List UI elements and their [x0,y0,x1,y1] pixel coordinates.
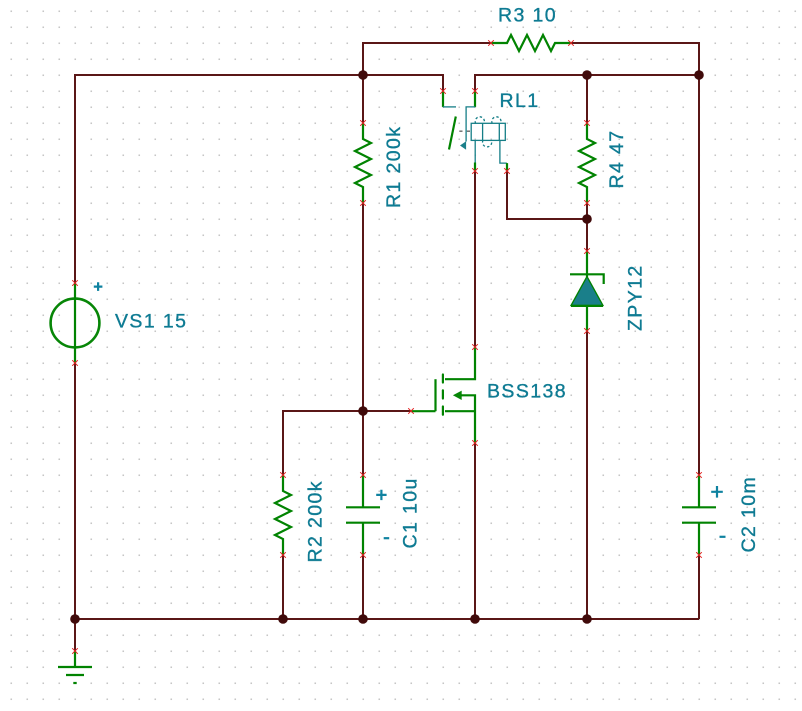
wire node G to R2 [283,411,363,475]
svg-text:R4 47: R4 47 [606,129,628,188]
wire node G to C1 [362,411,364,475]
resistor R4 [579,120,595,206]
resistor R1 [355,120,371,206]
capacitor C2 [682,472,726,558]
junction ground x source [470,614,480,624]
junction ground x zener [582,614,592,624]
junction node G [358,406,368,416]
wire rail A to relay pin1 [363,75,443,91]
junction rail B x right rail [694,70,704,80]
capacitor C1 [346,472,389,558]
wire right rail down to C2 [698,75,700,475]
svg-text:R2 200k: R2 200k [305,480,327,562]
wire VS1 bottom [74,363,76,619]
wire node G to gate [363,410,411,412]
svg-text:ZPY12: ZPY12 [625,264,647,331]
svg-text:BSS138: BSS138 [487,381,567,403]
wire C2 bottom [698,555,700,619]
junction ground x R2 [278,614,288,624]
zener diode ZPY12 [570,248,604,334]
wire zener to ground rail [586,331,588,619]
wire R3 left to rail A [363,43,491,75]
junction ground x C1 [358,614,368,624]
svg-text:C2 10m: C2 10m [738,476,760,553]
resistor R2 [275,472,291,558]
relay RL1 [440,88,510,174]
svg-text:C1 10u: C1 10u [400,477,422,548]
wire to ground symbol [74,619,76,651]
junction node K [582,214,592,224]
wire R4 bottom to node K [586,203,588,219]
wire R1 bottom to node G [362,203,364,411]
svg-text:VS1 15: VS1 15 [115,311,187,333]
junction rail B x R4 [582,70,592,80]
svg-text:R1 200k: R1 200k [383,126,405,208]
transistor Q1 BSS138 [408,344,478,446]
wire relay coil pin to node K [507,171,587,219]
svg-text:RL1: RL1 [500,90,540,112]
wire source to ground rail [474,443,476,619]
junction ground x VS1 [70,614,80,624]
svg-text:R3 10: R3 10 [498,5,557,27]
junction rail A x R1 [358,70,368,80]
voltage source VS1 [51,280,103,366]
wire R3 right to right rail [571,43,699,75]
wire R2 bottom [282,555,284,619]
wire ground rail [75,618,699,620]
wire relay pin2 to rail B [475,75,699,91]
ground [58,648,92,683]
wire relay coil to drain [474,171,476,347]
wire VS1 top to rail A [75,75,363,283]
resistor R3 [488,35,574,51]
wire C1 bottom [362,555,364,619]
wire node K to zener [586,219,588,251]
wire rail A to R1 [362,75,364,123]
wire rail B to R4 [586,75,588,123]
